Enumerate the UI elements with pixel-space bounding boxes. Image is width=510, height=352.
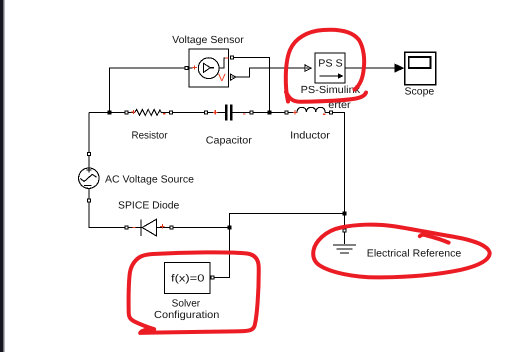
svg-text:V: V: [218, 73, 226, 84]
scope block: [405, 52, 436, 85]
window edge bar: [0, 0, 3, 352]
inductor L: lead right: [325, 112, 329, 114]
diode D: lead left: [128, 227, 141, 229]
diode D: lead right: [156, 227, 169, 229]
PS-Simulink converter block: [315, 53, 345, 83]
node: junction at ground: [343, 212, 347, 216]
wire capacitor to junction to inductor: [253, 112, 285, 114]
inductor L: left port: [285, 111, 288, 114]
inductor L: red minus: [323, 113, 326, 115]
diode D: right port: [170, 226, 173, 229]
wire inductor to right rail: [333, 113, 345, 214]
AC source: bottom stem: [88, 188, 90, 199]
ground: stem lower: [344, 232, 346, 244]
AC source: bottom port: [88, 199, 91, 202]
sensor: top-right port: [230, 56, 233, 59]
sensor: inner triangle: [204, 63, 211, 72]
solver configuration block: [165, 263, 211, 294]
red annotation: circle around PS-Simulink converter: [286, 30, 364, 102]
node: junction diode/solver/right rail: [228, 226, 232, 230]
sensor: circle: [198, 58, 219, 79]
resistor R: right port: [170, 111, 173, 114]
scope input arrowhead: [395, 64, 405, 73]
red annotation: ellipse around Electrical Reference: [313, 225, 489, 278]
svg-text:SPICE Diode: SPICE Diode: [118, 201, 180, 212]
wire resistor to capacitor: [173, 112, 205, 114]
diode D: triangle: [142, 219, 156, 236]
svg-text:Configuration: Configuration: [154, 310, 220, 321]
sensor: PS out port triangle: [231, 74, 236, 80]
wire: RLC row left segment: [89, 112, 125, 114]
AC source: top stem: [88, 155, 90, 169]
svg-text:f(x)=0: f(x)=0: [171, 273, 205, 284]
capacitor C: left port: [205, 111, 208, 114]
wire: riser to voltage sensor: [110, 68, 185, 113]
node: junction under sensor drop: [268, 111, 272, 115]
ground: bars: [333, 244, 356, 246]
AC source: minus: [84, 184, 91, 186]
wire: AC source column: [88, 113, 90, 153]
wire diode to mid junction: [173, 227, 230, 229]
converter: arrow: [320, 75, 339, 77]
red annotation: blob around Solver Configuration: [129, 252, 259, 333]
sensor: inner right lead up: [219, 58, 225, 68]
AC source: top port: [88, 152, 91, 155]
wire: sensor top-right to drop at x=269.5: [233, 58, 269, 111]
wire: sensor PS out to converter: [236, 68, 305, 77]
svg-text:PS S: PS S: [318, 59, 343, 70]
capacitor C: red polarity +: [213, 110, 217, 114]
svg-text:Inductor: Inductor: [290, 131, 330, 142]
svg-text:PS-Simulink: PS-Simulink: [301, 85, 361, 96]
wire: AC bottom to diode row: [89, 202, 125, 228]
resistor R: red minus: [163, 113, 165, 115]
inductor L: lead: [288, 112, 297, 114]
diode D: red plus: [160, 224, 165, 228]
resistor R: left port: [125, 111, 128, 114]
AC source: sine: [81, 174, 97, 181]
voltage sensor U1 block: [189, 49, 229, 87]
svg-text:Voltage Sensor: Voltage Sensor: [172, 35, 244, 46]
svg-text:AC Voltage Source: AC Voltage Source: [105, 175, 194, 186]
diode D: red minus: [132, 227, 135, 229]
solver config: right port: [211, 276, 214, 279]
sensor: left port: [185, 67, 188, 70]
sensor: inner left lead: [189, 67, 192, 69]
AC voltage source circle: [79, 168, 99, 188]
inductor L: right port: [330, 111, 333, 114]
sensor: red stub to top-right port: [225, 57, 229, 59]
PS-Simulink converter: input port triangle: [305, 65, 311, 71]
diode D: left port: [125, 226, 128, 229]
AC source: plus: [86, 168, 91, 173]
resistor R: red polarity +: [131, 110, 135, 114]
svg-text:Resistor: Resistor: [132, 131, 169, 142]
inductor L: coil: [297, 107, 325, 112]
resistor R: lead + zigzag: [128, 112, 135, 114]
svg-text:Capacitor: Capacitor: [206, 135, 253, 146]
ground: port: [343, 229, 346, 232]
scope screen: [409, 57, 431, 68]
capacitor C: leads: [208, 112, 251, 114]
node: junction at riser to sensor: [108, 111, 112, 115]
svg-text:Electrical Reference: Electrical Reference: [367, 249, 462, 260]
capacitor C: red minus: [243, 113, 246, 115]
diode D: cathode bar: [140, 219, 142, 236]
svg-text:Scope: Scope: [405, 87, 435, 98]
wire down to solver configuration: [214, 228, 230, 278]
inductor L: red polarity +: [293, 110, 297, 114]
wire converter to scope: [345, 67, 395, 69]
sensor: red plus: [192, 65, 196, 69]
capacitor C: right port: [250, 111, 253, 114]
wire jog up to right rail row: [230, 214, 345, 228]
ground: stem upper: [344, 215, 346, 229]
capacitor C: plates: [225, 105, 227, 121]
svg-text:Solver: Solver: [172, 298, 201, 309]
